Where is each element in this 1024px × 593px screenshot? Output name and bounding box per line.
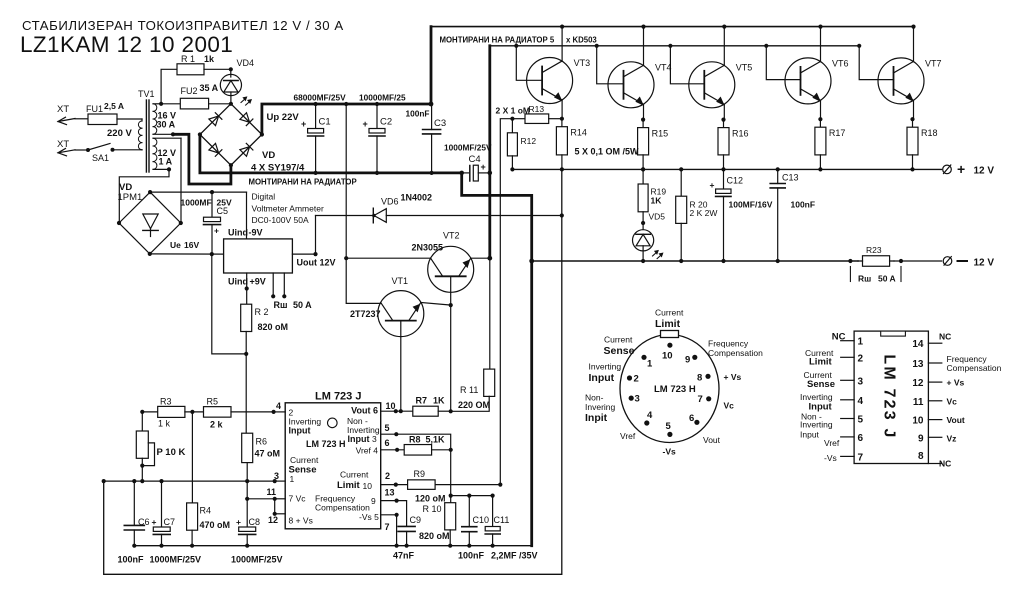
svg-text:LM 723 J: LM 723 J bbox=[881, 354, 898, 439]
svg-text:Sense: Sense bbox=[807, 379, 835, 390]
svg-text:C2: C2 bbox=[380, 117, 392, 128]
transformer TV1 primary winding bbox=[141, 119, 143, 121]
svg-text:Input: Input bbox=[589, 372, 615, 384]
wire R10 node bbox=[451, 495, 493, 497]
svg-text:68000MF/25V: 68000MF/25V bbox=[294, 93, 347, 103]
svg-text:C5: C5 bbox=[217, 206, 229, 216]
svg-text:1: 1 bbox=[647, 359, 653, 370]
svg-text:1K: 1K bbox=[433, 396, 445, 406]
svg-text:Uind: Uind bbox=[228, 277, 248, 287]
resistor R16 bbox=[723, 120, 725, 128]
wire VT2 collector bbox=[344, 256, 348, 260]
svg-text:C10: C10 bbox=[473, 515, 490, 525]
svg-text:13: 13 bbox=[385, 488, 395, 498]
svg-text:+: + bbox=[214, 226, 219, 236]
svg-text:VT6: VT6 bbox=[832, 58, 849, 68]
svg-text:100nF: 100nF bbox=[458, 551, 485, 561]
transformer TV1 core bbox=[145, 100, 147, 172]
svg-text:Rш: Rш bbox=[858, 274, 871, 284]
wire collector of VT7 bbox=[911, 25, 915, 29]
svg-text:470 oM: 470 oM bbox=[200, 520, 231, 530]
svg-text:Compensation: Compensation bbox=[708, 348, 763, 358]
wire emitter of VT3 bbox=[561, 100, 563, 119]
bridge diode upper-left bbox=[209, 116, 219, 126]
svg-text:МОНТИРАНИ НА РАДИАТОР: МОНТИРАНИ НА РАДИАТОР bbox=[249, 178, 357, 187]
LM723J pin 1 bbox=[841, 340, 854, 342]
wire current sense tap R12/R13 node down to R9 bbox=[500, 119, 512, 485]
svg-text:8 + Vs: 8 + Vs bbox=[289, 516, 313, 526]
regulator IC LM723 (box) bbox=[285, 403, 381, 529]
svg-text:R16: R16 bbox=[732, 129, 749, 139]
svg-text:4: 4 bbox=[276, 401, 281, 411]
svg-text:C3: C3 bbox=[434, 118, 446, 129]
svg-text:1000MF/25V: 1000MF/25V bbox=[150, 555, 202, 565]
svg-text:7: 7 bbox=[385, 522, 390, 532]
wire VT1 collector bbox=[346, 258, 381, 303]
voltmeter shunt sense stubs Rsh 50A bbox=[272, 273, 274, 296]
svg-text:+: + bbox=[301, 119, 306, 129]
svg-text:LM 723 H: LM 723 H bbox=[306, 439, 346, 449]
switch SA1 bbox=[75, 149, 88, 151]
svg-text:Voltmeter Ammeter: Voltmeter Ammeter bbox=[252, 204, 324, 214]
svg-text:1000MF: 1000MF bbox=[181, 198, 212, 208]
LM723J pin 4 bbox=[841, 399, 854, 401]
svg-text:7: 7 bbox=[858, 452, 864, 463]
wire minus vertical to bottom rail (thick) bbox=[530, 261, 533, 546]
svg-text:VD5: VD5 bbox=[649, 212, 666, 222]
wire +22V bus from bridge DC+ (thick) bbox=[262, 104, 431, 135]
svg-text:VT1: VT1 bbox=[392, 276, 409, 286]
svg-text:R9: R9 bbox=[414, 469, 426, 479]
resistor R15 bbox=[642, 120, 644, 128]
svg-text:+: + bbox=[957, 161, 965, 177]
LM723J pin 8 bbox=[928, 463, 941, 465]
svg-text:30 A: 30 A bbox=[157, 120, 176, 130]
svg-text:6: 6 bbox=[858, 433, 864, 444]
svg-text:VT7: VT7 bbox=[925, 58, 942, 68]
wire VT1 emitter to VT2 base bbox=[421, 303, 451, 306]
svg-text:10: 10 bbox=[912, 416, 924, 427]
svg-text:100nF: 100nF bbox=[118, 555, 145, 565]
svg-text:1000MF/25V: 1000MF/25V bbox=[444, 143, 492, 153]
wire base bus riser (thick) down to VT2 emitter bbox=[488, 46, 491, 258]
resistor R14 bbox=[561, 119, 563, 127]
wire Vc/+Vs to C8 node bbox=[247, 498, 275, 500]
svg-text:C4: C4 bbox=[469, 154, 481, 165]
svg-text:C11: C11 bbox=[494, 515, 510, 525]
svg-text:-Vs: -Vs bbox=[824, 453, 837, 463]
LM723J pin 11 bbox=[928, 400, 941, 402]
svg-text:8: 8 bbox=[918, 451, 924, 462]
svg-text:Invering: Invering bbox=[585, 402, 616, 412]
svg-text:-Vs: -Vs bbox=[663, 447, 677, 457]
LM723H pin 2 bbox=[627, 375, 632, 380]
wire emitter of VT6 bbox=[820, 100, 822, 119]
svg-text:10: 10 bbox=[386, 401, 396, 411]
wire VT2-base node down to R7 right bbox=[450, 305, 452, 411]
wire base of VT4 bbox=[595, 44, 599, 48]
svg-text:+: + bbox=[236, 517, 241, 527]
wire collector rail +22V (top) bbox=[431, 26, 913, 28]
LM723H pin 9 bbox=[692, 355, 697, 360]
svg-text:Current: Current bbox=[655, 308, 684, 318]
resistor R2 820 oM bbox=[246, 289, 248, 305]
bridge diode upper-right bbox=[240, 113, 250, 123]
svg-text:820 oM: 820 oM bbox=[258, 322, 289, 332]
svg-text:12: 12 bbox=[268, 515, 278, 525]
svg-text:2: 2 bbox=[634, 374, 639, 385]
svg-text:16V: 16V bbox=[184, 240, 199, 250]
LM723J pin 13 bbox=[928, 362, 941, 364]
wire outer bottom rail (+12V sense) bbox=[104, 169, 562, 574]
LM723H pin 10 bbox=[667, 343, 672, 348]
svg-text:R 1: R 1 bbox=[181, 54, 195, 64]
svg-text:13: 13 bbox=[912, 359, 924, 370]
svg-text:50 A: 50 A bbox=[293, 300, 312, 310]
svg-text:1N4002: 1N4002 bbox=[401, 193, 433, 203]
wire Uout up to VD6 line bbox=[315, 216, 317, 255]
svg-text:11: 11 bbox=[267, 487, 277, 497]
svg-text:12 V: 12 V bbox=[974, 258, 995, 269]
wire minus bus from bridge DC- (thick) bbox=[200, 135, 462, 173]
wire 12V winding top to 1PM1 AC right bbox=[180, 138, 182, 223]
bridge diode lower-left bbox=[209, 143, 219, 153]
svg-text:R4: R4 bbox=[200, 506, 212, 516]
svg-text:1000MF/25V: 1000MF/25V bbox=[231, 555, 283, 565]
svg-text:XT: XT bbox=[57, 139, 69, 150]
svg-text:VT5: VT5 bbox=[736, 62, 753, 72]
wire base of VT3 bbox=[514, 44, 518, 48]
wire current sense rail bbox=[104, 480, 275, 482]
svg-text:5: 5 bbox=[858, 415, 864, 426]
LM723J pin 3 bbox=[841, 379, 854, 381]
svg-text:R23: R23 bbox=[866, 245, 882, 255]
svg-text:Vout 6: Vout 6 bbox=[351, 406, 378, 416]
svg-text:5: 5 bbox=[385, 423, 390, 433]
wire collector of VT6 bbox=[818, 25, 822, 29]
svg-text:5,1K: 5,1K bbox=[426, 435, 446, 445]
svg-text:9: 9 bbox=[918, 433, 924, 444]
wire R2 bottom down to R6 bbox=[245, 354, 247, 433]
svg-text:1: 1 bbox=[290, 474, 295, 484]
terminal -12V bbox=[943, 257, 952, 266]
svg-text:7: 7 bbox=[698, 394, 703, 405]
svg-text:6: 6 bbox=[689, 413, 694, 424]
svg-text:2: 2 bbox=[858, 353, 864, 364]
wire collector of VT3 bbox=[560, 25, 564, 29]
wire +22V to VT1/VT2 collectors bbox=[344, 102, 348, 106]
wire collector of VT5 bbox=[722, 25, 726, 29]
svg-text:R7: R7 bbox=[416, 396, 428, 406]
svg-text:Inverting: Inverting bbox=[800, 392, 833, 402]
wire minus rail to -12V terminal bbox=[532, 260, 858, 262]
svg-text:Limit: Limit bbox=[337, 480, 361, 491]
svg-text:-Vs 5: -Vs 5 bbox=[359, 512, 379, 522]
svg-text:R14: R14 bbox=[570, 128, 587, 138]
resistor R17 bbox=[819, 119, 821, 127]
svg-text:R17: R17 bbox=[829, 128, 846, 138]
svg-text:LM 723 J: LM 723 J bbox=[315, 391, 361, 403]
svg-text:Vout: Vout bbox=[703, 435, 721, 445]
LM723J pin 9 bbox=[928, 436, 941, 438]
resistor R20 2K 2W bbox=[679, 167, 683, 171]
svg-text:10: 10 bbox=[363, 481, 373, 491]
svg-text:R15: R15 bbox=[652, 129, 669, 139]
svg-text:47nF: 47nF bbox=[393, 551, 415, 561]
svg-text:Frequency: Frequency bbox=[708, 339, 749, 349]
transistor VT6 (KD503) bbox=[785, 58, 831, 104]
svg-text:VT2: VT2 bbox=[443, 231, 460, 241]
svg-text:C13: C13 bbox=[782, 173, 799, 183]
svg-text:Inverting: Inverting bbox=[800, 420, 833, 430]
LM723H pin 5 bbox=[667, 432, 672, 437]
svg-text:1 A: 1 A bbox=[159, 157, 173, 167]
svg-text:C1: C1 bbox=[319, 117, 331, 128]
svg-text:VD: VD bbox=[262, 150, 275, 161]
wire base bus rail bbox=[490, 45, 859, 47]
transistor VT5 (KD503) bbox=[689, 62, 735, 108]
LM723H package diagram (TO-100) bbox=[620, 335, 719, 443]
svg-text:2,2MF /35V: 2,2MF /35V bbox=[491, 551, 538, 561]
LM723J package diagram (DIP-14) bbox=[854, 331, 928, 463]
svg-text:2 K 2W: 2 K 2W bbox=[690, 208, 718, 218]
svg-text:Vref: Vref bbox=[620, 431, 636, 441]
terminal +12V bbox=[943, 165, 952, 174]
svg-text:+ Vs: + Vs bbox=[724, 372, 742, 382]
svg-text:Current: Current bbox=[604, 335, 633, 345]
wire VT1 base down to R7/Vout bbox=[400, 321, 402, 412]
bridge rectifier VD 1PM1 bbox=[119, 192, 181, 254]
svg-text:R 11: R 11 bbox=[460, 385, 478, 395]
wire voltmeter Uout bbox=[292, 253, 315, 255]
svg-text:2 k: 2 k bbox=[210, 420, 224, 430]
LM723J pin 5 bbox=[841, 418, 854, 420]
wire VT2 emitter to base bus bbox=[471, 257, 490, 259]
svg-text:R6: R6 bbox=[256, 437, 268, 447]
svg-text:Uout 12V: Uout 12V bbox=[297, 258, 336, 268]
transistor VT7 (KD503) bbox=[878, 58, 924, 104]
svg-text:Limit: Limit bbox=[809, 357, 833, 368]
svg-text:5: 5 bbox=[666, 421, 672, 432]
svg-text:2T7237: 2T7237 bbox=[350, 309, 381, 319]
svg-text:C8: C8 bbox=[249, 517, 261, 527]
svg-text:Limit: Limit bbox=[655, 318, 681, 330]
svg-text:R12: R12 bbox=[521, 136, 537, 146]
svg-text:C7: C7 bbox=[164, 517, 176, 527]
resistor R18 bbox=[912, 119, 914, 127]
svg-text:FU1: FU1 bbox=[86, 104, 103, 114]
svg-text:4: 4 bbox=[858, 396, 864, 407]
svg-text:10000MF/25: 10000MF/25 bbox=[359, 93, 406, 103]
svg-text:R3: R3 bbox=[160, 397, 172, 407]
svg-text:Vz: Vz bbox=[947, 434, 957, 444]
LM723H pin 3 bbox=[629, 396, 634, 401]
svg-text:R 2: R 2 bbox=[255, 307, 269, 317]
svg-text:FU2: FU2 bbox=[181, 86, 198, 96]
svg-text:+ Vs: + Vs bbox=[947, 378, 965, 388]
svg-text:3: 3 bbox=[372, 434, 377, 444]
LM723H pin 4 bbox=[644, 420, 649, 425]
svg-text:R18: R18 bbox=[921, 128, 938, 138]
wire 12V winding to 1PM1 AC left bbox=[167, 167, 171, 171]
wire VT2 base down bbox=[450, 276, 452, 305]
svg-text:NC: NC bbox=[939, 332, 951, 342]
wire +22V riser to collector rail (thick) bbox=[430, 27, 433, 104]
svg-text:+: + bbox=[481, 162, 486, 172]
svg-text:Uind: Uind bbox=[228, 228, 248, 238]
svg-text:Up 22V: Up 22V bbox=[267, 112, 300, 123]
svg-text:SA1: SA1 bbox=[92, 153, 109, 163]
svg-text:100nF: 100nF bbox=[791, 200, 816, 210]
svg-text:9: 9 bbox=[371, 496, 376, 506]
svg-text:1k: 1k bbox=[204, 54, 215, 64]
svg-text:1PM1: 1PM1 bbox=[118, 192, 143, 203]
svg-text:Inverting: Inverting bbox=[589, 362, 622, 372]
LM723J pin 14 bbox=[928, 342, 941, 344]
svg-text:12 V: 12 V bbox=[974, 166, 995, 177]
svg-text:1: 1 bbox=[858, 337, 864, 348]
svg-text:Sense: Sense bbox=[604, 345, 635, 357]
wire voltmeter Uind +9V bbox=[246, 273, 248, 289]
svg-text:МОНТИРАНИ НА РАДИАТОР 5: МОНТИРАНИ НА РАДИАТОР 5 bbox=[440, 36, 555, 45]
LM723J pin 6 bbox=[841, 436, 854, 438]
svg-text:4: 4 bbox=[647, 410, 653, 421]
svg-text:10: 10 bbox=[662, 351, 673, 362]
svg-text:Vref: Vref bbox=[824, 438, 840, 448]
svg-text:R8: R8 bbox=[409, 435, 421, 445]
wire base of VT5 bbox=[668, 44, 672, 48]
svg-text:Input: Input bbox=[289, 426, 311, 436]
svg-text:6: 6 bbox=[385, 438, 390, 448]
wire emitter of VT5 bbox=[723, 104, 725, 120]
svg-text:5 X 0,1 OM /5W: 5 X 0,1 OM /5W bbox=[575, 147, 640, 157]
wire 1PM1 minus to voltmeter (-9V) bbox=[150, 191, 246, 193]
svg-text:+: + bbox=[152, 517, 157, 527]
svg-text:Vc: Vc bbox=[724, 401, 735, 411]
svg-text:Compensation: Compensation bbox=[315, 503, 370, 513]
svg-text:Input: Input bbox=[348, 434, 370, 444]
wire +12V output rail bbox=[512, 168, 941, 170]
wire emitter of VT4 bbox=[643, 104, 645, 120]
svg-text:LZ1KAM 12 10 2001: LZ1KAM 12 10 2001 bbox=[20, 32, 233, 57]
svg-text:C12: C12 bbox=[727, 176, 744, 186]
LM723J pin 10 bbox=[928, 419, 941, 421]
svg-text:R 10: R 10 bbox=[423, 504, 442, 514]
resistor R19 1K bbox=[641, 167, 645, 171]
svg-text:Ue: Ue bbox=[170, 240, 181, 250]
LM723H pin 1 bbox=[641, 355, 646, 360]
svg-text:P 10 K: P 10 K bbox=[157, 447, 186, 458]
svg-text:Rш: Rш bbox=[274, 300, 288, 310]
svg-text:100MF/16V: 100MF/16V bbox=[729, 200, 773, 210]
wire 16V winding to bridge AC (thick) bbox=[171, 132, 175, 136]
svg-text:C9: C9 bbox=[410, 515, 422, 525]
LM723H pin 8 bbox=[705, 374, 710, 379]
bridge rectifier VD (4 X SY197/4) bbox=[200, 104, 262, 165]
diode inside 1PM1 bbox=[143, 214, 158, 229]
svg-text:47 oM: 47 oM bbox=[255, 449, 281, 459]
svg-text:Vout: Vout bbox=[947, 415, 965, 425]
svg-text:VT4: VT4 bbox=[655, 62, 672, 72]
svg-text:NC: NC bbox=[939, 459, 951, 469]
svg-text:XT: XT bbox=[57, 104, 69, 115]
svg-text:50 A: 50 A bbox=[878, 274, 896, 284]
wire base of VT6 bbox=[764, 44, 768, 48]
wire aux minus: C5 bottom to R2 bottom bbox=[212, 254, 246, 354]
bridge diode lower-right bbox=[240, 147, 250, 157]
svg-text:Input: Input bbox=[800, 430, 820, 440]
svg-text:+: + bbox=[710, 180, 715, 190]
voltmeter box bbox=[224, 239, 293, 273]
transformer TV1 secondary 12V winding bbox=[153, 138, 157, 146]
svg-text:2N3055: 2N3055 bbox=[412, 243, 444, 253]
svg-text:VT3: VT3 bbox=[574, 58, 591, 68]
svg-text:LM 723 H: LM 723 H bbox=[654, 384, 696, 395]
LM723J pin 2 bbox=[841, 356, 854, 358]
svg-text:Current: Current bbox=[340, 470, 369, 480]
wire emitter of VT7 bbox=[913, 100, 915, 119]
svg-text:3: 3 bbox=[858, 376, 864, 387]
svg-text:Non-: Non- bbox=[585, 393, 604, 403]
svg-text:NC: NC bbox=[832, 332, 846, 343]
svg-text:Vc: Vc bbox=[947, 397, 958, 407]
svg-text:Digital: Digital bbox=[252, 192, 276, 202]
transistor VT4 (KD503) bbox=[608, 62, 654, 108]
svg-text:14: 14 bbox=[912, 339, 924, 350]
svg-text:R13: R13 bbox=[529, 104, 545, 114]
svg-text:12: 12 bbox=[912, 378, 924, 389]
svg-text:9: 9 bbox=[685, 355, 690, 366]
svg-text:+: + bbox=[363, 119, 368, 129]
svg-text:820 oM: 820 oM bbox=[419, 531, 450, 541]
svg-text:120 oM: 120 oM bbox=[415, 494, 446, 504]
svg-text:100nF: 100nF bbox=[406, 109, 430, 119]
wire inner bottom rail (minus) bbox=[134, 545, 531, 547]
svg-text:Vref 4: Vref 4 bbox=[356, 446, 379, 456]
svg-text:Inpit: Inpit bbox=[585, 412, 608, 424]
svg-text:2: 2 bbox=[385, 471, 390, 481]
svg-text:2,5 A: 2,5 A bbox=[104, 101, 124, 111]
svg-text:+9V: +9V bbox=[250, 277, 266, 287]
transistor VT3 (KD503) bbox=[527, 58, 573, 104]
svg-text:7 Vc: 7 Vc bbox=[289, 494, 307, 504]
transformer TV1 secondary 16V winding bbox=[153, 104, 157, 112]
svg-text:х KD503: х KD503 bbox=[566, 36, 597, 45]
svg-text:1K: 1K bbox=[651, 196, 663, 206]
LM723H pin 7 bbox=[706, 396, 711, 401]
LM723J pin 7 bbox=[841, 455, 854, 457]
svg-text:VD4: VD4 bbox=[237, 58, 255, 68]
svg-text:TV1: TV1 bbox=[138, 89, 155, 99]
wire collector of VT4 bbox=[641, 25, 645, 29]
wire 1PM1 plus to voltmeter bbox=[150, 253, 224, 255]
LM723J pin 12 bbox=[928, 381, 941, 383]
svg-text:R5: R5 bbox=[207, 397, 219, 407]
svg-text:8: 8 bbox=[697, 373, 702, 384]
svg-text:Compensation: Compensation bbox=[947, 363, 1002, 373]
svg-text:VD6: VD6 bbox=[381, 197, 399, 207]
svg-text:3: 3 bbox=[635, 394, 640, 405]
svg-text:1 k: 1 k bbox=[158, 419, 171, 429]
svg-text:220 OM: 220 OM bbox=[458, 400, 490, 410]
svg-text:220 V: 220 V bbox=[107, 128, 132, 139]
svg-text:DC0-100V 50A: DC0-100V 50A bbox=[252, 215, 310, 225]
svg-text:-9V: -9V bbox=[249, 228, 263, 238]
svg-text:35 A: 35 A bbox=[200, 83, 219, 93]
svg-text:Current: Current bbox=[290, 455, 319, 465]
svg-text:11: 11 bbox=[913, 397, 924, 408]
wire base of VT7 bbox=[857, 44, 861, 48]
